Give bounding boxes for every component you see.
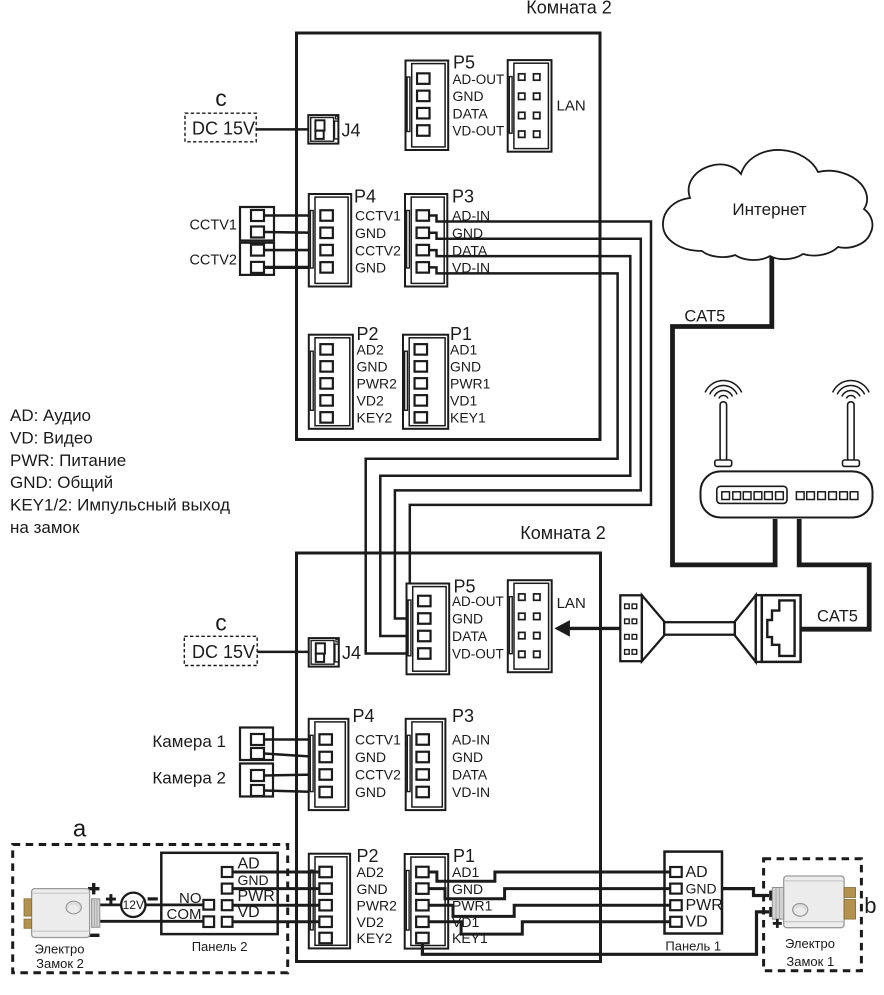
svg-text:Комната 2: Комната 2 xyxy=(526,0,612,18)
power source DC 15V (top) dashed box xyxy=(185,113,256,142)
label Панель 1 xyxy=(665,939,721,954)
label Панель 2 xyxy=(192,939,248,954)
svg-text:AD2: AD2 xyxy=(357,342,384,358)
wire P1 AD1 to Панель1 AD xyxy=(429,872,670,881)
label P5 (top) xyxy=(453,53,475,73)
label b xyxy=(864,893,876,918)
label CAT5 (upper) xyxy=(684,308,725,326)
plus sign lock2 xyxy=(88,883,100,894)
connector CCTV2 (2-pin) xyxy=(240,243,274,275)
pins AD GND PWR VD (Панель 2) xyxy=(222,867,233,927)
room box Комната 2 (top) xyxy=(297,33,601,440)
svg-text:CCTV1: CCTV1 xyxy=(355,208,401,224)
RJ45 coupler left trapezoid xyxy=(642,595,664,661)
wire Панель2 GND to P2 GND xyxy=(233,887,320,890)
label COM xyxy=(167,906,202,923)
connector P2 (bottom room) xyxy=(309,854,350,949)
svg-text:J4: J4 xyxy=(342,643,361,663)
svg-text:AD-OUT: AD-OUT xyxy=(453,72,505,87)
label P3 (bottom) xyxy=(452,706,474,726)
label c (bottom) xyxy=(215,610,227,636)
connector J4 (bottom room) xyxy=(309,638,339,667)
svg-text:J4: J4 xyxy=(342,121,361,141)
svg-text:VD: VD xyxy=(686,913,708,930)
wire lock2 to COM xyxy=(100,920,204,923)
arrow into LAN (bottom room) xyxy=(554,620,620,637)
router right port squares xyxy=(796,492,858,500)
svg-text:P1: P1 xyxy=(453,846,475,866)
electric lock 1 body xyxy=(772,876,855,928)
svg-text:AD: AD xyxy=(238,856,260,873)
svg-text:AD1: AD1 xyxy=(452,864,479,880)
wire Панель1 GND to lock 1 xyxy=(722,889,769,896)
label P4 (top) xyxy=(354,187,376,207)
label CCTV2 xyxy=(189,253,237,269)
plus sign lock1 xyxy=(773,919,782,928)
svg-text:CAT5: CAT5 xyxy=(684,308,725,326)
wire CAT5 cloud to router xyxy=(673,257,776,565)
connector P1 (bottom room) xyxy=(405,854,449,949)
svg-text:Электро: Электро xyxy=(785,936,835,951)
label Электро Замок 1 xyxy=(785,936,835,969)
label P2 (bottom) xyxy=(357,846,379,866)
svg-text:PWR2: PWR2 xyxy=(357,376,398,392)
wire P3 DATA to P5 DATA (bottom room) xyxy=(380,250,630,636)
pins AD GND PWR VD (Панель 1) xyxy=(670,867,682,927)
svg-text:a: a xyxy=(73,816,87,843)
label CAT5 (right) xyxy=(817,608,858,626)
svg-text:AD1: AD1 xyxy=(450,342,477,358)
minus sign lock2 xyxy=(88,934,100,937)
svg-text:GND: GND xyxy=(452,749,483,765)
svg-text:Замок 2: Замок 2 xyxy=(36,956,84,971)
svg-text:GND: Общий: GND: Общий xyxy=(10,473,113,492)
label P1 (bottom) xyxy=(453,846,475,866)
svg-text:GND: GND xyxy=(450,359,481,375)
svg-text:CCTV2: CCTV2 xyxy=(355,767,401,783)
pin labels P3 top: AD-IN GND DATA VD-IN xyxy=(452,208,490,276)
minus sign battery xyxy=(148,897,158,900)
svg-text:GND: GND xyxy=(238,872,269,888)
pin labels P4 top: CCTV1 GND CCTV2 GND xyxy=(355,208,401,276)
wire P1 PWR1 to Панель1 PWR xyxy=(429,905,670,916)
svg-text:VD-OUT: VD-OUT xyxy=(453,124,505,139)
label Камера 2 xyxy=(152,769,226,788)
pin COM (Панель 2) xyxy=(203,916,214,927)
router body xyxy=(701,471,873,517)
svg-text:AD: AD xyxy=(686,864,708,881)
svg-text:Замок 1: Замок 1 xyxy=(786,954,834,969)
pin labels P1 top: AD1 GND PWR1 VD1 KEY1 xyxy=(450,342,491,426)
svg-text:KEY2: KEY2 xyxy=(357,410,393,426)
svg-text:LAN: LAN xyxy=(557,595,586,612)
pin labels P1 bottom: AD1 GND PWR1 VD1 KEY1 xyxy=(452,864,493,946)
label P5 (bottom) xyxy=(454,577,476,597)
wire Панель2 VD to P2 VD2 xyxy=(233,920,320,923)
pin labels P2 bottom: AD2 GND PWR2 VD2 KEY2 xyxy=(357,864,398,946)
wire P1 VD1 to Панель1 VD xyxy=(429,922,670,934)
wire P3 GND to P5 GND (bottom room) xyxy=(395,233,641,619)
electric lock 2 body xyxy=(24,889,100,938)
connector LAN (bottom room) xyxy=(508,580,552,672)
RJ45 plug collar xyxy=(756,595,762,662)
svg-text:12V: 12V xyxy=(123,898,144,912)
svg-text:P2: P2 xyxy=(357,846,379,866)
wire CCTV1 pin2 to P4 GND xyxy=(264,231,319,234)
wire Панель2 PWR to P2 PWR2 xyxy=(233,904,320,907)
router antenna left xyxy=(715,402,732,467)
svg-text:CCTV2: CCTV2 xyxy=(189,253,237,269)
pin labels P2 top: AD2 GND PWR2 VD2 KEY2 xyxy=(357,342,398,426)
svg-text:VD2: VD2 xyxy=(357,914,384,930)
svg-text:P3: P3 xyxy=(452,706,474,726)
room box Комната 2 (bottom) xyxy=(297,553,601,962)
svg-text:P5: P5 xyxy=(453,53,475,73)
svg-text:Электро: Электро xyxy=(35,942,85,957)
wire Камера2 pin2 to P4 GND xyxy=(264,791,319,793)
svg-text:PWR2: PWR2 xyxy=(357,897,398,913)
pin labels Панель2: AD GND PWR VD xyxy=(238,856,275,922)
pin labels P5 top: AD-OUT GND DATA VD-OUT xyxy=(453,72,505,139)
svg-text:GND: GND xyxy=(355,784,386,800)
svg-text:KEY2: KEY2 xyxy=(357,930,393,946)
svg-text:DC 15V: DC 15V xyxy=(192,642,255,662)
svg-text:VD: VD xyxy=(238,904,260,921)
dashed box b xyxy=(764,859,862,971)
svg-text:P4: P4 xyxy=(354,187,376,207)
wifi waves right antenna xyxy=(833,380,870,398)
connector P3 (bottom room) xyxy=(406,719,446,810)
RJ45 coupler 8-pin connector xyxy=(620,595,642,661)
connector P1 (top room) xyxy=(403,335,448,429)
svg-text:CAT5: CAT5 xyxy=(817,608,858,626)
svg-text:VD2: VD2 xyxy=(357,393,384,409)
label P1 (top) xyxy=(450,324,472,344)
svg-text:CCTV1: CCTV1 xyxy=(189,218,237,234)
svg-text:Панель 1: Панель 1 xyxy=(665,939,721,954)
wire P3 AD-IN to P5 AD-OUT (bottom room) xyxy=(410,216,651,602)
pin labels Панель1: AD GND PWR VD xyxy=(686,864,723,930)
svg-text:CCTV2: CCTV2 xyxy=(355,242,401,258)
svg-text:PWR: PWR xyxy=(686,897,723,914)
connector P3 (top room) xyxy=(405,194,447,287)
pin NO (Панель 2) xyxy=(203,900,214,910)
svg-text:VD1: VD1 xyxy=(450,393,477,409)
battery 12V circle xyxy=(121,893,145,917)
power source DC 15V (bottom) dashed box xyxy=(184,636,257,665)
wire Камера1 pin1 to P4 CCTV1 xyxy=(264,738,319,741)
wire P1 KEY1 to lock 1 xyxy=(422,912,769,954)
label J4 (bottom) xyxy=(342,643,361,663)
label J4 (top) xyxy=(342,121,361,141)
label a xyxy=(73,816,87,843)
connector P5 (bottom room) xyxy=(407,584,450,675)
label Комната 2 (top) xyxy=(526,0,612,18)
wire Камера2 pin1 to P4 CCTV2 xyxy=(264,775,319,776)
svg-text:Камера 2: Камера 2 xyxy=(152,769,226,788)
svg-text:DATA: DATA xyxy=(452,767,488,783)
svg-text:VD: Видео: VD: Видео xyxy=(10,428,93,447)
svg-text:на замок: на замок xyxy=(10,518,80,537)
svg-text:GND: GND xyxy=(357,359,388,375)
connector P4 (bottom room) xyxy=(309,719,349,810)
svg-text:c: c xyxy=(215,85,227,111)
label Комната 2 (bottom) xyxy=(520,523,606,543)
wire Камера1 pin2 to P4 GND xyxy=(264,754,319,758)
legend text xyxy=(10,406,230,537)
panel box Панель 1 xyxy=(665,852,723,934)
svg-text:PWR: PWR xyxy=(238,888,275,905)
svg-text:CCTV1: CCTV1 xyxy=(355,732,401,748)
wire CCTV1 pin1 to P4 CCTV1 xyxy=(264,214,319,217)
wire Панель2 AD to P2 AD2 xyxy=(233,871,320,874)
wire DC 15V to J4 (top) xyxy=(256,128,308,131)
svg-text:GND: GND xyxy=(452,881,483,897)
connector CCTV1 (2-pin) xyxy=(240,207,274,241)
label Камера 1 xyxy=(152,732,226,751)
svg-text:GND: GND xyxy=(355,749,386,765)
wire P3 VD-IN to P5 VD-OUT (bottom room) xyxy=(366,267,618,653)
svg-text:PWR1: PWR1 xyxy=(450,376,491,392)
connector P5 (top room) xyxy=(406,61,449,151)
svg-text:VD-IN: VD-IN xyxy=(452,784,490,800)
svg-text:AD: Аудио: AD: Аудио xyxy=(10,406,91,425)
wire P1 GND to Панель1 GND xyxy=(429,889,670,899)
wifi waves left antenna xyxy=(705,380,742,398)
RJ45 jack profile xyxy=(767,600,794,656)
svg-text:PWR: Питание: PWR: Питание xyxy=(10,451,126,470)
svg-text:KEY1/2: Импульсный выход: KEY1/2: Импульсный выход xyxy=(10,496,230,515)
internet cloud xyxy=(663,150,873,260)
label c (top) xyxy=(215,85,227,111)
terminal tick lock1 lower xyxy=(769,907,772,917)
svg-text:P3: P3 xyxy=(452,187,474,207)
svg-text:DATA: DATA xyxy=(452,628,488,644)
connector P2 (top room) xyxy=(309,335,353,429)
dashed box a xyxy=(13,845,288,973)
svg-text:Комната 2: Комната 2 xyxy=(520,523,606,543)
svg-text:Панель 2: Панель 2 xyxy=(192,939,248,954)
terminal tick lock1 upper xyxy=(769,891,772,901)
pin labels P4 bottom: CCTV1 GND CCTV2 GND xyxy=(355,732,401,801)
svg-text:AD2: AD2 xyxy=(357,864,384,880)
svg-text:GND: GND xyxy=(355,225,386,241)
connector P4 (top room) xyxy=(309,194,351,287)
svg-text:DATA: DATA xyxy=(453,105,489,121)
label Интернет xyxy=(732,200,806,219)
svg-text:AD-IN: AD-IN xyxy=(452,732,490,748)
label NO xyxy=(179,890,202,907)
svg-text:GND: GND xyxy=(686,881,717,897)
label LAN (top) xyxy=(557,98,586,115)
router antenna right xyxy=(843,402,860,467)
svg-text:GND: GND xyxy=(357,881,388,897)
svg-text:b: b xyxy=(864,893,876,918)
pin labels P5 bottom: AD-OUT GND DATA VD-OUT xyxy=(452,594,504,662)
connector Камера 2 (2-pin) xyxy=(240,764,273,797)
wire CCTV2 pin1 to P4 CCTV2 xyxy=(264,249,319,252)
router left port group xyxy=(717,486,787,503)
panel box Панель 2 xyxy=(161,853,277,934)
label Электро Замок 2 xyxy=(35,942,85,972)
svg-text:GND: GND xyxy=(453,88,484,104)
label CCTV1 xyxy=(189,218,237,234)
label P2 (top) xyxy=(357,324,379,344)
pin labels P3 bottom: AD-IN GND DATA VD-IN xyxy=(452,732,490,801)
svg-text:P4: P4 xyxy=(353,706,375,726)
svg-text:Интернет: Интернет xyxy=(732,200,806,219)
wire CAT5 router to RJ45 plug xyxy=(799,519,869,629)
svg-text:GND: GND xyxy=(452,611,483,627)
connector J4 (top room) xyxy=(308,115,338,144)
label P4 (bottom) xyxy=(353,706,375,726)
svg-text:DC 15V: DC 15V xyxy=(192,119,255,139)
RJ45 plug body xyxy=(762,595,801,662)
connector LAN (top room) xyxy=(508,60,552,152)
svg-text:c: c xyxy=(215,610,227,636)
svg-text:KEY1: KEY1 xyxy=(450,410,486,426)
plus sign battery xyxy=(106,894,116,904)
svg-text:VD-OUT: VD-OUT xyxy=(452,647,504,662)
wire CCTV2 pin2 to P4 GND xyxy=(264,266,319,269)
svg-text:LAN: LAN xyxy=(557,98,586,115)
label P3 (top) xyxy=(452,187,474,207)
RJ45 plug trapezoid xyxy=(735,595,756,662)
svg-text:Камера 1: Камера 1 xyxy=(152,732,226,751)
svg-text:GND: GND xyxy=(355,260,386,276)
connector Камера 1 (2-pin) xyxy=(240,728,273,761)
RJ45 cable sleeve xyxy=(664,622,735,635)
label LAN (bottom) xyxy=(557,595,586,612)
svg-text:AD-OUT: AD-OUT xyxy=(452,594,504,609)
wire lock2 to 12V to NO xyxy=(100,904,204,907)
wire DC 15V to J4 (bottom) xyxy=(257,651,309,654)
